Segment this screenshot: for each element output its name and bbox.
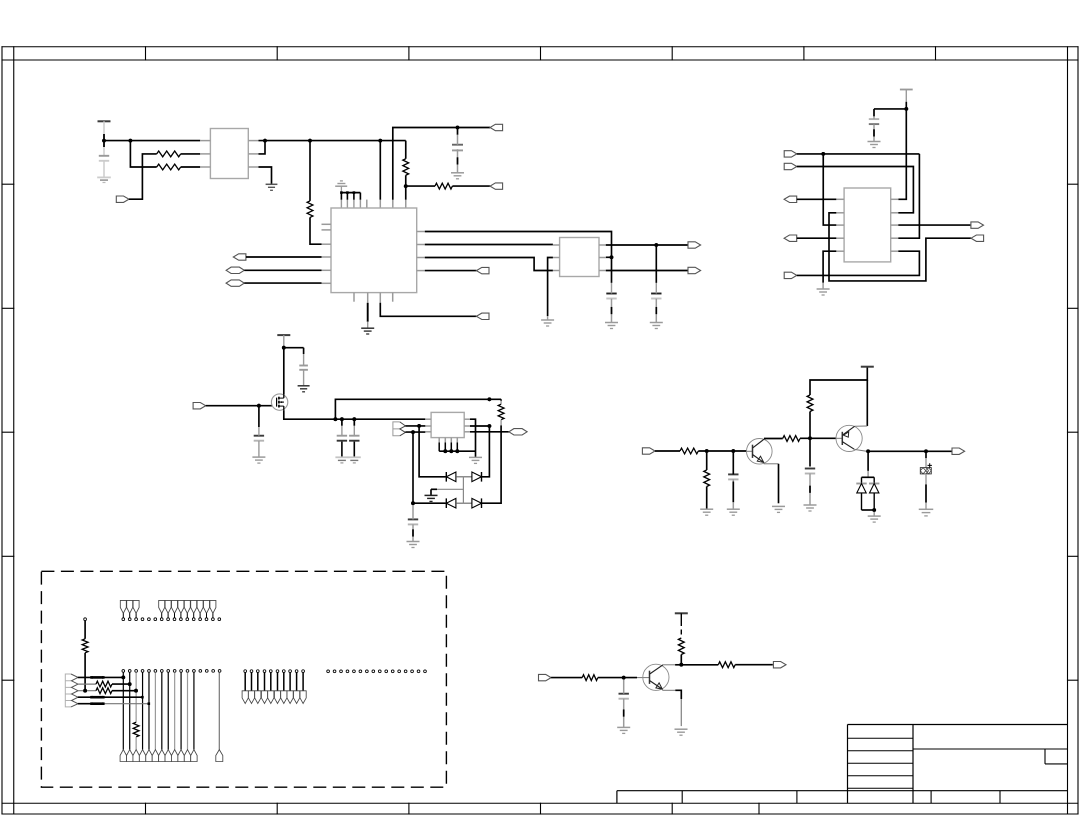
ground G20 (772, 506, 785, 512)
junction row5 (148, 702, 151, 705)
bus pin circle R16 (424, 670, 427, 673)
wire down to U5 pin3 (823, 154, 836, 225)
wire fan row2 (78, 681, 130, 687)
capacitor C2 (452, 145, 463, 151)
wire diode mid tap (462, 477, 464, 503)
bus pin circle M4 (261, 670, 267, 704)
diode D1 (446, 472, 456, 482)
wire U2 to U3 pin3 stepped (425, 258, 553, 271)
resistor R3 (307, 201, 313, 218)
junction collector node (679, 663, 683, 667)
junction bus dots (443, 449, 459, 453)
wire J18 to Q4 gate (206, 405, 273, 407)
junction J11 riser (821, 152, 825, 156)
bus pin circle R12 (398, 670, 401, 673)
connector header pin H3 (133, 600, 139, 620)
wire riser J19 to diode row1 (419, 426, 446, 477)
wire D1-D2 link (456, 476, 472, 478)
transistor Q3 (643, 664, 669, 690)
junction VCC3 node (282, 346, 286, 350)
wire R1 to U1 pin2 (181, 153, 201, 155)
wire U2 top pin to J2 (392, 200, 394, 208)
wire Q4 source rail (284, 410, 426, 419)
connector fan F1-F5 (65, 674, 78, 707)
junction U3 pin riser (610, 255, 614, 259)
IC U4 (431, 412, 464, 437)
wire diode pair top bar (862, 476, 875, 478)
wire emitter down to diodes (867, 451, 869, 471)
wire J5 to U2 (244, 269, 321, 271)
bus pin circle M5 (268, 670, 274, 704)
bus pin circle R10 (385, 670, 388, 673)
wire row2 to D3 (413, 502, 446, 504)
wire fan row1 (78, 676, 124, 679)
IC U3 (560, 238, 599, 277)
junction C11 tap (731, 449, 735, 453)
connector header pin H11 (204, 600, 210, 620)
bus wire W1 (122, 672, 124, 749)
ground G5 (605, 323, 618, 329)
wire R9 to ground (706, 487, 708, 510)
junction diode bottom (872, 508, 876, 512)
connector J8 (476, 313, 489, 319)
bus pin circle M1 (242, 670, 248, 704)
connector tag T8 (165, 750, 171, 762)
resistor R13 (678, 638, 684, 655)
junction C2 tap (456, 126, 460, 130)
resistor R6 (498, 404, 504, 420)
wire J11 to U5 pin7 (898, 154, 919, 238)
wire R11 to base node (809, 412, 811, 439)
wire collector node to R14 (681, 664, 718, 666)
bus pin circle B3 (135, 670, 138, 673)
wire VCC2 to U5 pin10 (898, 102, 906, 200)
wire J11 net (797, 153, 920, 155)
connector J9 (688, 242, 701, 248)
wire U2 to U3 pin1 (425, 244, 553, 246)
bus pin circle M10 (300, 670, 306, 704)
wire base node to C12 (809, 438, 811, 466)
connector pin circle PC2 (148, 618, 151, 621)
capacitor C10 (408, 519, 418, 524)
bus pin circle B2 (128, 670, 131, 673)
DNP dashed boundary box (41, 571, 446, 787)
wire U2 to U3 right net (425, 232, 612, 283)
bus pin circle R9 (378, 670, 381, 673)
bus wire W12 (193, 672, 195, 749)
resistor R2 (157, 164, 181, 170)
wire U4 right pin3 to hex J21 (470, 431, 509, 433)
bus wire W13 (218, 672, 220, 749)
connector J1 (116, 196, 129, 202)
wire Q2 emitter node (854, 449, 866, 451)
capacitor C3 (606, 294, 616, 299)
wire C14 leads (623, 678, 625, 694)
connector J17 (971, 235, 984, 241)
connector pin circle P0 (84, 618, 87, 621)
junction R9 tap (705, 449, 709, 453)
wire VCC3 stem (283, 335, 285, 348)
ground G9 (868, 142, 881, 148)
bus pin circle R15 (417, 670, 420, 673)
wire rail corner to R4 (405, 141, 407, 159)
resistor R10 (783, 436, 800, 442)
bus pin circle R7 (366, 670, 369, 673)
junction row2 node (411, 501, 415, 505)
connector tag T11 (184, 750, 190, 762)
wire riser into U3 pin (606, 256, 612, 258)
resistor R14 (718, 662, 735, 668)
resistor R11 (807, 395, 813, 412)
wire U4 right pin2 to riser (470, 425, 489, 427)
capacitor C7 (254, 436, 264, 441)
U1 pin stubs (200, 141, 258, 167)
wire U1 pin6 to ground (259, 167, 272, 184)
bus wire W2 (129, 672, 131, 749)
wire R4 to U2 top pin (405, 175, 407, 200)
ground G18 (700, 509, 713, 515)
wire rail to U2 top pin (379, 141, 381, 200)
wire J12 to U5 pin9 (797, 167, 914, 213)
bus wire W10 (180, 672, 182, 749)
wire U5 pin5 to ground (823, 251, 836, 283)
title block (617, 725, 1068, 804)
wire J22 to R8 (655, 450, 680, 452)
connector header pin H10 (197, 600, 203, 620)
ground G7 (541, 320, 554, 326)
wire R12 to Q3 base (598, 677, 637, 679)
diode D2 (472, 472, 482, 482)
wire Q1 collector to R10 (764, 438, 783, 440)
connector tag T7 (159, 750, 165, 762)
wire VCC3 to C6 (284, 347, 304, 349)
capacitor C14 (619, 694, 629, 699)
bus pin circle B4 (141, 670, 144, 673)
wire Q1 emitter to ground (764, 463, 779, 465)
junction dots overlay (83, 107, 928, 693)
ground G21 (804, 505, 817, 511)
connector J15 (784, 272, 797, 278)
wire C9 leads (353, 419, 355, 426)
bus pin circle M3 (255, 670, 261, 704)
connector tag T5 (146, 750, 152, 762)
IC U5 (844, 188, 891, 262)
U2 top pin stub (366, 200, 368, 208)
bus wire W8 (167, 672, 169, 749)
wire R15 to row3 (84, 653, 86, 691)
wire C12 lead (809, 474, 811, 506)
bus wire W5 (148, 672, 150, 749)
transistor Q1 (747, 439, 773, 465)
bus wire W3 (133, 672, 139, 749)
connector header pin H5 (165, 600, 171, 620)
wire J4 to U2 (246, 256, 322, 258)
connector J3 (490, 183, 503, 189)
power flag VCC1 (98, 120, 111, 122)
wire riser to top rail (335, 399, 501, 419)
junction C9 tap (352, 417, 356, 421)
wire C11 leads (732, 451, 734, 474)
connector J14 (784, 235, 797, 241)
connector tag T9 (171, 750, 177, 762)
connector header pin H1 (120, 600, 126, 620)
junction source-riser (334, 417, 338, 421)
capacitor C8 (337, 436, 347, 441)
ground G3 (451, 173, 464, 179)
IC U2 (331, 208, 417, 293)
ground G4 top of U2 (335, 181, 347, 186)
wire D4 to R6 net (482, 432, 502, 503)
wire C4 leads (655, 245, 657, 283)
wire riser J20 to diode row2 (412, 432, 414, 503)
connector pin circle PC4 (218, 618, 221, 621)
wire rail down to R3 (309, 141, 311, 201)
bus pin circle R4 (346, 670, 349, 673)
connector tag T2 (127, 750, 133, 762)
connector J12 (784, 163, 797, 169)
ground G6 (361, 328, 374, 334)
bus pin circle R1 (327, 670, 330, 673)
connector tag T6 (152, 750, 158, 762)
ground G10 (817, 289, 830, 295)
wire U4 bottom bus (439, 443, 475, 452)
junction node A1 (129, 139, 133, 143)
bus pin circle M9 (294, 670, 300, 704)
wire U1 pin4 rail (259, 140, 406, 142)
wire R13 to collector node (680, 655, 682, 665)
power flag VCC2 (900, 89, 913, 91)
diode D5 (856, 484, 866, 493)
ground G17 (407, 542, 420, 548)
junction C4 tap (654, 243, 658, 247)
resistor R16 marker (0, 0, 1, 1)
wire ground bus to U2 top pins (340, 186, 360, 208)
MOSFET Q4 (271, 394, 287, 410)
bus pin circle R5 (353, 670, 356, 673)
wire VCC1 rail to U1 pin1 (104, 140, 200, 142)
junction R15-row3 (83, 689, 87, 693)
bus wire W11 (187, 672, 189, 749)
diode D6 (869, 484, 879, 493)
connector J21 (509, 429, 527, 435)
bus pin circle M2 (248, 670, 254, 704)
capacitor C13 electrolytic (920, 451, 932, 509)
wire VCC1 stem (103, 121, 105, 134)
bus pin circle M6 (274, 670, 280, 704)
connector J23 (952, 448, 965, 454)
connector J22 (642, 448, 655, 454)
wire U1 pin5 to rail (259, 141, 266, 154)
wire to R5 (406, 185, 435, 187)
connector J6 (226, 280, 244, 286)
connector J25 (773, 662, 786, 668)
bus pin circle B11 (186, 670, 189, 673)
bus pin circle R8 (372, 670, 375, 673)
power flag VCC5 (675, 612, 688, 614)
ground G2 (266, 184, 278, 190)
bus pin circle B10 (180, 670, 183, 673)
bus pin circle B9 (173, 670, 176, 673)
wire R8 to Q1 base (698, 450, 746, 452)
resistor R12 (582, 675, 598, 681)
wire J1 to R1 (129, 154, 157, 199)
junction C13 tap (924, 449, 928, 453)
wire R14 to J25 (735, 664, 773, 666)
wire R9 lead (706, 451, 708, 470)
wire diode pair bottom bar (862, 493, 875, 510)
wire U2 bottom to ground (367, 293, 369, 303)
ground G8 (650, 323, 663, 329)
bus wire W4 (142, 672, 144, 749)
wire C6 leads (303, 354, 305, 366)
bus wire W7 (161, 672, 163, 749)
connector tag T3 (133, 750, 139, 762)
junction top rail to R7 branch (488, 397, 492, 401)
wire emitter to J23 (868, 450, 953, 452)
power flag VCC3 (277, 334, 290, 336)
junction pin2-riser (488, 424, 492, 428)
ground G11 (298, 386, 310, 392)
bus pin circle R3 (340, 670, 343, 673)
wire power net to R11 (810, 367, 867, 395)
bus pin circle B1 (122, 670, 125, 673)
bus pin circle B13 (199, 670, 202, 673)
bus pin circle B14 (205, 670, 208, 673)
connector J13 (784, 196, 797, 202)
capacitor C12 (805, 469, 815, 474)
ground G1 (97, 177, 111, 182)
ground G16 (425, 495, 438, 501)
junction at VCC1 (102, 139, 106, 143)
junction C7 tap (257, 404, 261, 408)
bus pin circle R14 (411, 670, 414, 673)
wire J19 to U4 (405, 425, 425, 427)
connector J24 (539, 674, 552, 680)
bus pin circle R2 (333, 670, 336, 673)
U4 pin stubs (425, 419, 470, 442)
bus pin circle B7 (160, 670, 163, 673)
wire fan row3 (78, 688, 136, 694)
wire R5 to J3 (452, 185, 490, 187)
wire J6 to U2 (244, 282, 321, 284)
wire Q3 collector (663, 664, 675, 666)
wire U5 pin8 to J16 (898, 224, 970, 226)
bus pin circle R11 (391, 670, 394, 673)
bus pin circle B15 (212, 670, 215, 673)
bus pin circle M7 (281, 670, 287, 704)
transistor Q2 (836, 425, 862, 451)
wire D2 to riser (482, 426, 490, 477)
power flag VCC4 (861, 366, 874, 368)
IC U1 (210, 129, 248, 179)
wire C2 leads (457, 128, 459, 135)
connector J10 (688, 267, 701, 273)
wire P0 to R15 (84, 621, 86, 639)
bus pin circle B5 (148, 670, 151, 673)
connector J2 (490, 124, 503, 130)
wire fan row5 (78, 702, 149, 705)
connector fork J19 J20 (393, 422, 406, 436)
capacitor C11 (728, 474, 738, 479)
junction C14 tap (622, 676, 626, 680)
wire C1 to ground (103, 161, 105, 177)
ground G23 (919, 509, 934, 516)
wire fan row4 (78, 696, 143, 699)
wire C8 leads (341, 419, 343, 426)
wire node A1 down to R2 (130, 141, 156, 167)
wire C3 leads (611, 283, 613, 294)
bus pin circle M8 (287, 670, 293, 704)
connector header pin H7 (178, 600, 184, 620)
wire VCC5 to R13 (680, 613, 682, 621)
bus pin circle B12 (193, 670, 196, 673)
wire U4 right pin1 to ground (470, 419, 476, 457)
junction row2 (128, 682, 132, 686)
capacitor C6 (299, 366, 308, 370)
connector J16 (971, 222, 984, 228)
connector tag T12 (191, 750, 197, 762)
wire R6 to hex net (500, 420, 502, 426)
connector tag T1 (120, 750, 126, 762)
wire J20 to U4 (405, 431, 425, 433)
ground G15 (469, 457, 482, 463)
bus pin circle B6 (154, 670, 157, 673)
junction rail-U2 (378, 139, 382, 143)
wire top rail corner to R6 (500, 399, 502, 401)
junction J20 riser (411, 430, 415, 434)
connector J4 (233, 254, 246, 260)
diode D3 (446, 498, 456, 508)
junction row4 (141, 696, 144, 699)
wire U3 pin2 to ground (548, 258, 553, 317)
wire VCC4 to Q2 collector (866, 380, 868, 426)
connector tag T13 (216, 750, 223, 762)
U5 pin stubs (836, 199, 898, 251)
junction row1 (121, 676, 125, 680)
junction U1 pin5 riser (263, 139, 267, 143)
resistor R5 (435, 183, 452, 189)
ground G13 (335, 457, 348, 463)
junction R4-R5 (404, 184, 408, 188)
connector J11 (784, 151, 797, 157)
connector tag T4 (139, 750, 145, 762)
wire U5 pin2 loop to J17 (829, 213, 971, 281)
U3 pin stubs (553, 245, 606, 271)
resistor R15 (82, 639, 88, 653)
connector header pin H9 (191, 600, 197, 620)
connector pin circle PC3 (154, 618, 157, 621)
connector J5 (226, 267, 244, 273)
wire J14 to U5 pin4 (797, 237, 837, 239)
wire tap to ground G16 (437, 488, 463, 490)
diode D4 (472, 498, 482, 508)
wire J24 to R12 (551, 677, 582, 679)
ground G24 (617, 727, 630, 733)
connector J7 (476, 267, 489, 273)
wire J13 to U5 pin1 (797, 198, 837, 200)
wire U3 to J9 (606, 244, 689, 246)
junction rail-R3 (308, 139, 312, 143)
wire R10 to Q2 base (800, 437, 836, 439)
capacitor C1 (99, 156, 109, 161)
wire VCC3 to Q4 drain (283, 348, 285, 395)
U2 left pin stubs (322, 224, 425, 301)
wire R2 to U1 pin3 (181, 166, 201, 168)
connector header pin H2 (127, 600, 133, 620)
wire J15 to U5 pin6 (797, 251, 920, 275)
junction C8 tap (340, 417, 344, 421)
junction Q2 emitter (866, 449, 870, 453)
